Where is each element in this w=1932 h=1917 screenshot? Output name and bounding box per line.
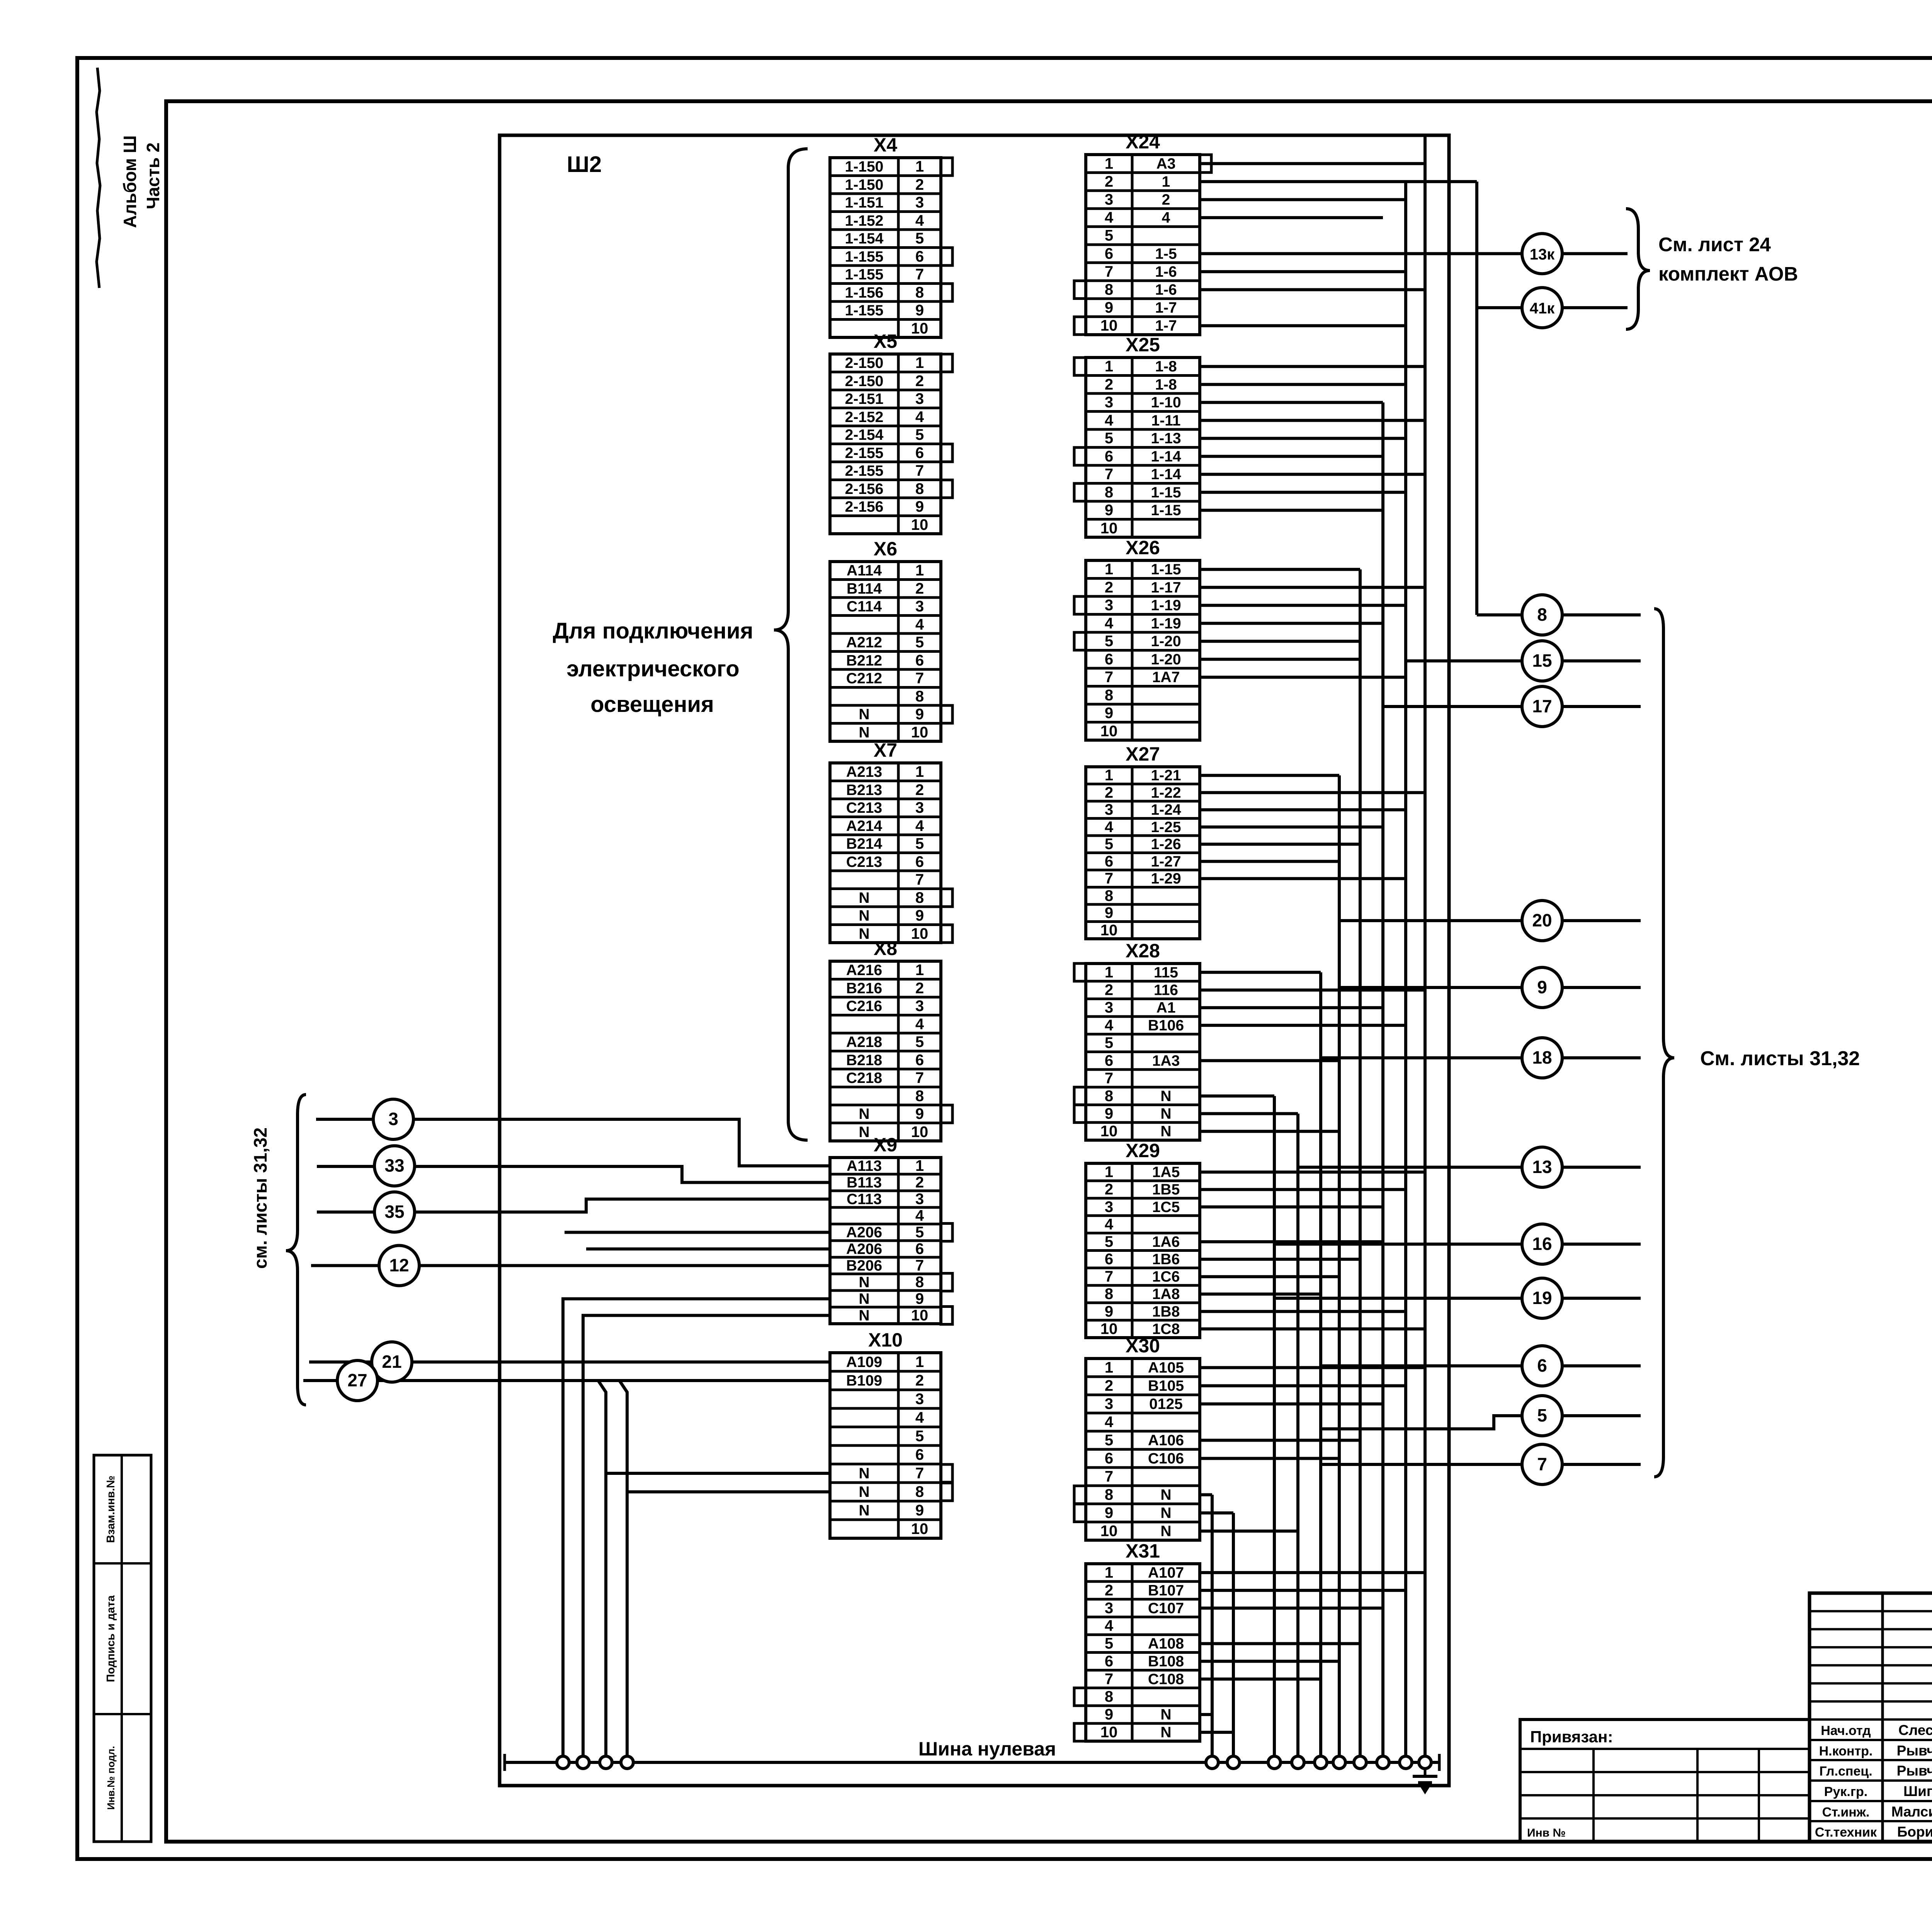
svg-text:9: 9	[1105, 299, 1113, 316]
svg-text:8: 8	[1105, 281, 1113, 298]
svg-text:7: 7	[1105, 1670, 1113, 1687]
svg-text:4: 4	[1105, 412, 1114, 429]
svg-text:N: N	[859, 907, 869, 924]
node 41к	[1522, 288, 1562, 328]
connector X26	[1074, 537, 1200, 740]
svg-text:1: 1	[915, 763, 924, 780]
svg-text:10: 10	[1100, 520, 1118, 537]
svg-text:10: 10	[911, 1124, 929, 1141]
svg-text:А109: А109	[846, 1354, 882, 1371]
svg-text:2-155: 2-155	[845, 445, 884, 461]
svg-text:Слесенко: Слесенко	[1898, 1722, 1932, 1738]
svg-text:см. листы 31,32: см. листы 31,32	[250, 1127, 270, 1269]
svg-text:1-22: 1-22	[1151, 785, 1181, 801]
svg-text:N: N	[1160, 1706, 1171, 1723]
svg-text:8: 8	[1105, 1688, 1113, 1705]
svg-text:N: N	[859, 1106, 869, 1122]
svg-text:N: N	[859, 1291, 869, 1308]
svg-text:6: 6	[1105, 1450, 1113, 1467]
svg-text:Инв.№ подл.: Инв.№ подл.	[105, 1746, 117, 1810]
svg-text:освещения: освещения	[590, 692, 714, 717]
svg-text:В214: В214	[846, 836, 883, 852]
wire X25 pin 6	[1200, 455, 1383, 458]
svg-text:6: 6	[1105, 448, 1113, 465]
wire X29 pin 9	[1200, 1310, 1406, 1313]
wire X30 pin 5	[1200, 1439, 1360, 1442]
svg-text:2: 2	[915, 781, 924, 798]
svg-text:7: 7	[915, 1069, 924, 1086]
connector X31	[1074, 1540, 1200, 1741]
svg-text:1-155: 1-155	[845, 302, 884, 319]
svg-text:4: 4	[915, 409, 924, 426]
svg-text:Н.контр.: Н.контр.	[1819, 1744, 1873, 1759]
svg-text:6: 6	[1105, 1052, 1113, 1069]
svg-text:1-7: 1-7	[1155, 300, 1177, 316]
svg-text:1-15: 1-15	[1151, 502, 1181, 519]
svg-text:6: 6	[915, 1052, 924, 1069]
svg-text:19: 19	[1532, 1288, 1552, 1308]
svg-text:1-7: 1-7	[1155, 318, 1177, 334]
svg-text:3: 3	[915, 390, 924, 407]
wire from node 18	[1562, 1056, 1641, 1059]
wire X30 pin 1	[1200, 1366, 1425, 1369]
wire X31 pin 10	[1200, 1731, 1233, 1734]
wire jog v1568 top	[598, 1381, 606, 1473]
svg-text:9: 9	[915, 302, 924, 319]
connector X30	[1074, 1335, 1200, 1540]
svg-text:В113: В113	[847, 1175, 882, 1191]
svg-text:N: N	[1160, 1487, 1171, 1503]
svg-text:5: 5	[915, 426, 924, 443]
svg-text:2: 2	[1162, 192, 1170, 208]
svg-text:С218: С218	[846, 1070, 882, 1086]
node 7	[1522, 1444, 1562, 1485]
connector X6	[830, 538, 952, 741]
wire from node 13к	[1562, 252, 1628, 255]
svg-text:С216: С216	[846, 998, 882, 1015]
brace for lighting connection group	[774, 149, 808, 1140]
wire X25 pin 9	[1200, 509, 1383, 512]
wire from node 20	[1562, 919, 1641, 922]
svg-text:4: 4	[915, 616, 924, 633]
wire node 12 segment	[419, 1264, 830, 1267]
svg-text:18: 18	[1532, 1047, 1552, 1067]
node 6	[1522, 1346, 1562, 1386]
wire vertical N-bus x3638	[1404, 182, 1407, 1762]
svg-text:А1: А1	[1156, 999, 1176, 1016]
svg-text:2-155: 2-155	[845, 463, 884, 479]
title row Н.контр. Рывченко	[1819, 1743, 1932, 1759]
svg-text:Рывченко: Рывченко	[1897, 1743, 1932, 1759]
svg-text:1: 1	[1105, 767, 1113, 784]
svg-text:5: 5	[1105, 1635, 1113, 1652]
svg-text:8: 8	[1105, 687, 1113, 704]
svg-text:А214: А214	[846, 818, 883, 834]
node 13к	[1522, 233, 1562, 274]
svg-text:0125: 0125	[1149, 1396, 1183, 1413]
wire to node 17	[1383, 705, 1522, 708]
wire X10 pin 8 N to bus	[627, 1492, 830, 1762]
wire X27 pin 1	[1200, 774, 1339, 777]
svg-text:1: 1	[1105, 561, 1113, 578]
svg-text:А105: А105	[1148, 1360, 1184, 1376]
svg-text:27: 27	[347, 1370, 367, 1390]
svg-text:2-151: 2-151	[845, 391, 884, 407]
svg-text:Х6: Х6	[874, 538, 897, 560]
svg-text:В105: В105	[1148, 1378, 1184, 1394]
svg-text:7: 7	[1105, 466, 1113, 483]
svg-text:2: 2	[1105, 579, 1113, 596]
svg-text:9: 9	[1105, 1706, 1113, 1723]
wire X31 pin 2	[1200, 1589, 1406, 1592]
svg-text:Х24: Х24	[1126, 131, 1160, 153]
svg-text:5: 5	[1105, 1233, 1113, 1250]
svg-text:В107: В107	[1148, 1582, 1184, 1599]
svg-text:3: 3	[1105, 1600, 1113, 1617]
svg-text:Борисова: Борисова	[1897, 1824, 1932, 1840]
wire X31 pin 3	[1200, 1607, 1383, 1610]
svg-text:См. листы 31,32: См. листы 31,32	[1700, 1047, 1860, 1070]
svg-text:4: 4	[1105, 209, 1114, 226]
svg-text:10: 10	[1100, 1724, 1118, 1741]
svg-text:12: 12	[389, 1255, 409, 1275]
wire X28 pin 6	[1200, 1059, 1339, 1062]
svg-text:1С5: 1С5	[1152, 1199, 1180, 1216]
svg-text:3: 3	[388, 1109, 398, 1129]
svg-text:1А5: 1А5	[1152, 1164, 1180, 1181]
svg-text:3: 3	[915, 598, 924, 615]
svg-text:Х31: Х31	[1126, 1540, 1160, 1562]
svg-text:1: 1	[915, 158, 924, 175]
svg-text:N: N	[1160, 1105, 1171, 1122]
svg-text:N: N	[1160, 1523, 1171, 1540]
svg-text:В218: В218	[846, 1052, 882, 1069]
svg-text:10: 10	[911, 925, 929, 942]
node 18	[1522, 1038, 1562, 1078]
svg-text:4: 4	[915, 1207, 924, 1224]
svg-text:1-150: 1-150	[845, 158, 884, 175]
svg-text:5: 5	[1105, 633, 1113, 650]
svg-text:1-8: 1-8	[1155, 358, 1177, 375]
wire to node 19	[1274, 1297, 1522, 1300]
svg-text:Х29: Х29	[1126, 1140, 1160, 1161]
junction dot x3298 on zero bus	[1268, 1756, 1281, 1769]
wire from node 15	[1562, 659, 1641, 662]
wire X26 pin 5	[1200, 640, 1360, 643]
junction dot x3466 on zero bus	[1333, 1756, 1345, 1769]
svg-text:1-14: 1-14	[1151, 466, 1181, 483]
svg-text:А212: А212	[846, 634, 882, 651]
wire vertical N-bus x3466	[1338, 775, 1341, 1762]
svg-text:15: 15	[1532, 650, 1552, 671]
connector X10	[830, 1329, 952, 1538]
label Ш2	[567, 152, 602, 177]
wire X31 pin 9	[1200, 1713, 1212, 1716]
svg-text:1-17: 1-17	[1151, 579, 1181, 596]
wire node 21 segment	[412, 1360, 830, 1364]
svg-text:А108: А108	[1148, 1636, 1184, 1652]
wire vertical N-bus x3192	[1232, 1513, 1235, 1763]
node 3	[373, 1099, 413, 1139]
wire X9 pin 9 N to bus	[563, 1299, 830, 1763]
connector X9	[830, 1134, 952, 1325]
wire X24 pin 7	[1200, 270, 1406, 273]
node 16	[1522, 1224, 1562, 1264]
svg-text:10: 10	[1100, 922, 1118, 939]
svg-text:2-152: 2-152	[845, 409, 884, 426]
svg-text:В216: В216	[846, 980, 882, 997]
title row Рук.гр. Шипола	[1824, 1783, 1932, 1799]
svg-text:2: 2	[1105, 376, 1113, 393]
wire X24 pin 3	[1200, 198, 1406, 201]
svg-text:8: 8	[1105, 1088, 1113, 1105]
svg-text:9: 9	[915, 1290, 924, 1308]
wire X26 pin 6	[1200, 658, 1360, 661]
wire from node 17	[1562, 705, 1641, 708]
svg-text:21: 21	[382, 1352, 401, 1372]
stamp Альбом III Часть 2	[120, 135, 163, 228]
wire X25 pin 2	[1200, 383, 1406, 386]
svg-text:4: 4	[1105, 1414, 1114, 1431]
svg-text:Х25: Х25	[1126, 334, 1160, 356]
wire X26 pin 3	[1200, 604, 1406, 607]
svg-text:9: 9	[915, 1502, 924, 1519]
svg-text:7: 7	[1105, 1468, 1113, 1485]
svg-text:4: 4	[915, 1409, 924, 1426]
svg-text:2: 2	[1105, 1181, 1113, 1198]
ground symbol	[1413, 1769, 1437, 1793]
wire from node 5	[1562, 1414, 1641, 1417]
wire vertical N-bus x3137	[1211, 1495, 1214, 1763]
wire X30 pin 9	[1200, 1512, 1233, 1515]
svg-text:1: 1	[1105, 358, 1113, 375]
svg-text:9: 9	[915, 498, 924, 515]
svg-text:33: 33	[384, 1156, 404, 1176]
wire X31 pin 6	[1200, 1660, 1339, 1663]
wire X27 pin 6	[1200, 860, 1339, 863]
brace see sheets 31,32 left	[286, 1095, 306, 1405]
wire X31 pin 5	[1200, 1642, 1360, 1645]
svg-text:9: 9	[1537, 977, 1547, 997]
svg-text:N: N	[859, 1308, 869, 1324]
svg-text:1-20: 1-20	[1151, 651, 1181, 668]
node 17	[1522, 686, 1562, 727]
svg-text:9: 9	[1105, 1505, 1113, 1522]
svg-text:8: 8	[1105, 1285, 1113, 1302]
svg-text:N: N	[1160, 1505, 1171, 1522]
svg-text:1: 1	[1105, 155, 1113, 172]
svg-text:Х10: Х10	[868, 1329, 903, 1351]
svg-text:5: 5	[915, 634, 924, 651]
svg-text:1-8: 1-8	[1155, 376, 1177, 393]
cabinet Ш2 outline	[500, 135, 1449, 1786]
svg-text:41к: 41к	[1530, 300, 1555, 317]
svg-text:7: 7	[915, 670, 924, 687]
node 27	[337, 1360, 378, 1401]
svg-text:115: 115	[1154, 964, 1178, 981]
wire X27 pin 2	[1200, 791, 1425, 794]
svg-text:См. лист 24: См. лист 24	[1658, 233, 1771, 255]
wire to node 16	[1274, 1243, 1522, 1246]
connector X8	[830, 938, 952, 1141]
node 21	[372, 1342, 412, 1382]
svg-text:10: 10	[1100, 1123, 1118, 1140]
svg-text:А206: А206	[846, 1241, 882, 1258]
connector X4	[830, 134, 952, 337]
svg-text:А213: А213	[846, 764, 882, 780]
svg-text:7: 7	[915, 871, 924, 888]
wire X30 pin 3	[1200, 1403, 1383, 1406]
svg-text:Ст.инж.: Ст.инж.	[1822, 1805, 1870, 1820]
scan artifact marks left border	[97, 68, 100, 288]
wire X28 pin 4	[1200, 1024, 1406, 1027]
svg-text:Х4: Х4	[874, 134, 897, 156]
svg-text:4: 4	[1105, 615, 1114, 632]
svg-text:2: 2	[915, 580, 924, 597]
svg-text:N: N	[859, 706, 869, 723]
svg-text:2-156: 2-156	[845, 499, 884, 515]
svg-text:5: 5	[1105, 1432, 1113, 1449]
svg-text:1-19: 1-19	[1151, 615, 1181, 632]
svg-text:5: 5	[1105, 836, 1113, 853]
wire X26 pin 2	[1200, 586, 1425, 589]
svg-text:1А8: 1А8	[1152, 1286, 1180, 1302]
wire X29 pin 1	[1200, 1171, 1425, 1174]
wire X24 pin 2	[1200, 180, 1477, 183]
svg-text:10: 10	[1100, 317, 1118, 334]
svg-text:N: N	[1160, 1724, 1171, 1741]
svg-text:1-6: 1-6	[1155, 282, 1177, 298]
wire X25 pin 4	[1200, 419, 1425, 422]
svg-text:2: 2	[915, 1372, 924, 1389]
svg-text:7: 7	[1105, 669, 1113, 686]
wire from node 7	[1562, 1463, 1641, 1466]
wire X29 pin 2	[1200, 1188, 1406, 1191]
wire X28 pin 10	[1200, 1130, 1339, 1133]
svg-text:1В5: 1В5	[1152, 1182, 1180, 1198]
svg-text:Малсимова: Малсимова	[1891, 1804, 1932, 1820]
note См. листы 31,32	[1700, 1047, 1860, 1070]
left margin table Взам.инв.№ / Подпись и дата / Инв.№ подл.	[94, 1455, 151, 1842]
connector X28	[1074, 940, 1200, 1140]
svg-text:2-156: 2-156	[845, 481, 884, 497]
wire to node 7	[1321, 1463, 1522, 1466]
svg-text:С212: С212	[846, 670, 882, 687]
svg-text:В206: В206	[846, 1258, 882, 1274]
svg-text:1: 1	[915, 562, 924, 579]
svg-text:N: N	[859, 1484, 869, 1500]
svg-text:А216: А216	[846, 962, 882, 979]
junction dot x3638 on zero bus	[1400, 1756, 1412, 1769]
title row Гл.спец. Рывченко	[1819, 1763, 1932, 1779]
svg-text:1: 1	[915, 354, 924, 371]
svg-text:6: 6	[1537, 1355, 1547, 1376]
svg-text:8: 8	[915, 688, 924, 705]
wire X9 pin 10 N to bus	[583, 1316, 830, 1763]
node 13	[1522, 1147, 1562, 1187]
svg-text:8: 8	[1105, 1486, 1113, 1503]
svg-text:А218: А218	[846, 1034, 882, 1050]
wire to node 13	[1298, 1166, 1522, 1169]
junction dot x3137 on zero bus	[1206, 1756, 1218, 1769]
svg-text:4: 4	[1162, 209, 1170, 226]
wire vertical N-bus x3688	[1423, 135, 1427, 1762]
svg-text:1А6: 1А6	[1152, 1234, 1180, 1250]
wire X29 pin 10	[1200, 1327, 1425, 1330]
svg-text:1-14: 1-14	[1151, 448, 1181, 465]
svg-text:3: 3	[1105, 394, 1113, 411]
wire X27 pin 3	[1200, 808, 1406, 811]
svg-text:16: 16	[1532, 1234, 1552, 1254]
svg-text:1-26: 1-26	[1151, 836, 1181, 853]
svg-text:5: 5	[915, 1428, 924, 1445]
svg-text:9: 9	[915, 706, 924, 723]
svg-text:1-151: 1-151	[845, 194, 884, 211]
svg-text:13: 13	[1532, 1157, 1552, 1177]
svg-text:8: 8	[915, 1483, 924, 1500]
svg-text:А3: А3	[1156, 155, 1176, 172]
svg-text:5: 5	[1105, 430, 1113, 447]
node 15	[1522, 641, 1562, 681]
svg-text:6: 6	[1105, 1251, 1113, 1268]
svg-text:3: 3	[915, 194, 924, 211]
svg-text:1В6: 1В6	[1152, 1251, 1180, 1268]
svg-text:9: 9	[1105, 1303, 1113, 1320]
svg-text:Ш2: Ш2	[567, 152, 602, 177]
svg-text:А106: А106	[1148, 1432, 1184, 1449]
svg-text:1-6: 1-6	[1155, 264, 1177, 280]
svg-text:10: 10	[911, 1307, 929, 1324]
wire X28 pin 8	[1200, 1095, 1274, 1098]
svg-text:1: 1	[915, 1353, 924, 1371]
svg-text:Подпись и дата: Подпись и дата	[105, 1595, 117, 1682]
svg-text:Х8: Х8	[874, 938, 897, 959]
node 12	[379, 1246, 419, 1286]
wire X24 pin 4	[1200, 216, 1383, 219]
svg-text:1: 1	[1162, 174, 1170, 190]
svg-text:6: 6	[915, 1446, 924, 1463]
wire X28 pin 3	[1200, 1006, 1383, 1009]
wire to node 18	[1321, 1056, 1522, 1059]
wire vertical N-bus x3520	[1359, 569, 1362, 1762]
svg-text:1-155: 1-155	[845, 249, 884, 265]
junction dot x1623 on zero bus	[621, 1756, 633, 1769]
wire to node 8	[1477, 613, 1522, 616]
wire node 3 to X9 pin 2	[316, 1118, 373, 1121]
svg-text:9: 9	[915, 907, 924, 924]
wire X27 pin 4	[1200, 826, 1383, 829]
node 8	[1522, 595, 1562, 635]
wire X24 pin 10	[1200, 324, 1406, 327]
wire X26 pin 7	[1200, 676, 1406, 679]
svg-text:электрического: электрического	[566, 656, 739, 681]
svg-text:7: 7	[1105, 870, 1113, 887]
wire node 33 to X9 pin 2	[317, 1165, 374, 1168]
svg-text:10: 10	[1100, 1320, 1118, 1337]
svg-text:1-27: 1-27	[1151, 853, 1181, 870]
svg-text:6: 6	[1105, 853, 1113, 870]
connector X7	[830, 739, 952, 943]
wire to node 15	[1406, 659, 1522, 662]
node 19	[1522, 1278, 1562, 1318]
svg-text:7: 7	[915, 1257, 924, 1274]
svg-text:1: 1	[1105, 1164, 1113, 1181]
wire vertical N-bus x3579	[1381, 402, 1384, 1762]
svg-text:4: 4	[915, 212, 924, 229]
wire to node 5	[1321, 1416, 1522, 1429]
wire vertical N-bus x3418	[1319, 972, 1322, 1762]
svg-text:С108: С108	[1148, 1671, 1184, 1687]
